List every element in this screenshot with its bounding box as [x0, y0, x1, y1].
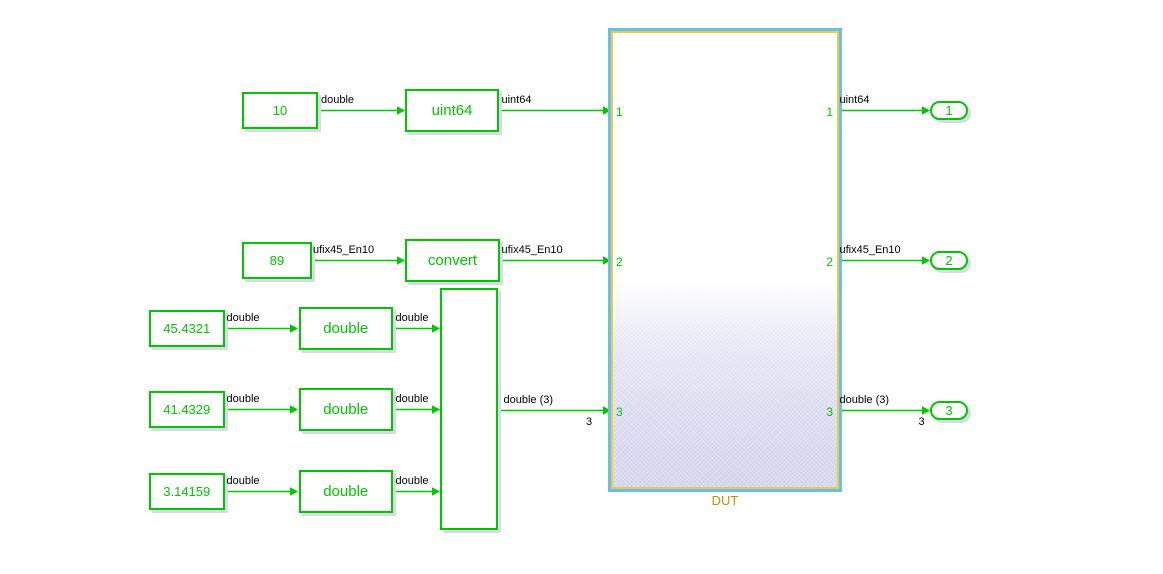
- wire DUT out3 to Out3: [841, 410, 923, 412]
- wire Constant314 to double3: [225, 491, 291, 493]
- conversion block double3: [299, 470, 394, 513]
- outport 2: [930, 251, 968, 270]
- signal label double (row3 mid): [396, 313, 429, 324]
- subsystem DUT: [608, 28, 842, 492]
- signal label ufix45_En10 (row2 right): [840, 245, 901, 256]
- outport 1: [930, 101, 968, 120]
- constant block 89: [242, 242, 312, 279]
- DUT name label: [608, 493, 842, 508]
- signal label uint64 (row1 mid): [502, 95, 532, 106]
- signal label double (3) (mux out): [504, 395, 554, 406]
- DUT port 3 (in): [616, 406, 623, 418]
- signal label double (row1): [321, 95, 354, 106]
- mux block: [440, 288, 498, 530]
- DUT port 2 (out): [823, 256, 833, 268]
- signal label double (row5 left): [227, 476, 260, 487]
- width label 3 (mux out): [586, 417, 592, 428]
- conversion block uint64: [405, 89, 499, 132]
- conversion block double2: [299, 388, 394, 431]
- conversion block convert: [405, 239, 500, 282]
- wire Constant41 to double2: [225, 409, 291, 411]
- wire DUT out1 to Out1: [841, 110, 923, 112]
- signal label double (row4 mid): [396, 394, 429, 405]
- wire DUT out2 to Out2: [841, 260, 923, 262]
- wire double3 to Mux in3: [393, 491, 433, 493]
- wire convert to DUT in2: [500, 260, 604, 262]
- conversion block double1: [299, 307, 394, 350]
- wire uint64 to DUT in1: [499, 110, 604, 112]
- wire Mux to DUT in3: [498, 410, 604, 412]
- signal label uint64 (row1 right): [840, 95, 870, 106]
- wire double2 to Mux in2: [393, 409, 433, 411]
- wire Constant45 to double1: [225, 328, 291, 330]
- signal label double (row4 left): [227, 394, 260, 405]
- constant block 10: [242, 92, 318, 129]
- signal label ufix45_En10 (row2 mid): [502, 245, 563, 256]
- constant block 3.14159: [149, 473, 226, 510]
- constant block 45.4321: [149, 310, 226, 347]
- signal label double (row5 mid): [396, 476, 429, 487]
- signal label double (3) (right): [840, 395, 890, 406]
- constant block 41.4329: [149, 391, 226, 428]
- outport 3: [930, 401, 968, 420]
- signal label ufix45_En10 (row2 left): [313, 245, 374, 256]
- wire Constant89 to convert: [312, 260, 398, 262]
- DUT port 3 (out): [823, 406, 833, 418]
- DUT port 1 (in): [616, 106, 623, 118]
- width label 3 (right): [919, 417, 925, 428]
- DUT port 1 (out): [823, 106, 833, 118]
- wire double1 to Mux in1: [393, 328, 433, 330]
- signal label double (row3 left): [227, 313, 260, 324]
- wire Constant10 to uint64: [318, 110, 398, 112]
- DUT port 2 (in): [616, 256, 623, 268]
